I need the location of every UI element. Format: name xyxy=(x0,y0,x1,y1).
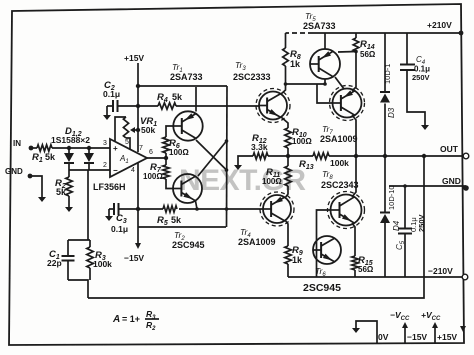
potentiometer VR1 xyxy=(115,117,126,141)
wire cross diagonal 2 xyxy=(198,141,227,176)
node GND terminal xyxy=(28,174,33,179)
svg-text:100Ω: 100Ω xyxy=(292,137,312,146)
wire Tr4 collector up xyxy=(285,186,288,198)
svg-text:GND: GND xyxy=(442,176,461,186)
wire Tr2 emitter down xyxy=(196,201,198,209)
arrow +Vcc xyxy=(434,326,436,344)
arrow -Vcc xyxy=(404,326,406,344)
svg-text:2SA1009: 2SA1009 xyxy=(320,134,358,144)
node C5 top xyxy=(403,184,407,188)
svg-text:5k: 5k xyxy=(171,215,182,225)
svg-text:OUT: OUT xyxy=(440,144,459,154)
transistor Tr8 xyxy=(328,192,365,229)
wire GND down xyxy=(32,176,42,194)
wire +210V rail xyxy=(313,32,461,34)
resistor R9 xyxy=(287,245,289,247)
wire +15V column xyxy=(137,63,139,152)
ground (R2) xyxy=(68,204,70,208)
arrow -15V xyxy=(135,243,141,249)
svg-text:5k: 5k xyxy=(56,187,67,197)
wire Tr8 collector up xyxy=(352,156,356,197)
wire C1 R3 bottom xyxy=(68,280,88,298)
svg-text:3.3k: 3.3k xyxy=(251,142,268,152)
node cross top xyxy=(225,139,229,143)
svg-text:+15V: +15V xyxy=(437,332,457,342)
capacitor C1 xyxy=(67,240,69,256)
svg-text:R2: R2 xyxy=(146,320,156,332)
ground (R12) xyxy=(237,162,239,166)
wire R7 to Tr2 base xyxy=(166,179,173,189)
svg-text:7: 7 xyxy=(139,145,143,152)
svg-text:10D-1: 10D-1 xyxy=(383,64,392,84)
svg-text:2SA733: 2SA733 xyxy=(170,72,203,82)
terminal -210V xyxy=(462,274,468,280)
wire pin2 node down to C1 R3 xyxy=(87,170,89,240)
node feedback tap on OUT xyxy=(422,154,426,158)
node D2 top xyxy=(87,146,91,150)
wire cross diagonal 1 xyxy=(196,140,227,170)
ground (input) xyxy=(41,194,43,198)
node +210V on border xyxy=(459,31,464,36)
svg-text:−: − xyxy=(113,166,118,175)
capacitor C3 xyxy=(109,208,114,210)
wire C1 R3 top xyxy=(68,239,90,241)
node op-amp output xyxy=(164,156,168,160)
transistor Tr4 xyxy=(260,192,294,226)
terminal OUT xyxy=(463,153,469,159)
wire -210V rail xyxy=(288,276,462,278)
svg-text:2SA1009: 2SA1009 xyxy=(238,237,276,247)
wire Tr7 collector down xyxy=(352,115,356,156)
svg-text:250V: 250V xyxy=(417,214,426,232)
transistor Tr1 xyxy=(173,111,202,140)
resistor R3 xyxy=(89,240,91,247)
svg-text:−VCC: −VCC xyxy=(390,310,410,322)
svg-text:5k: 5k xyxy=(45,152,56,162)
terminal GND xyxy=(463,185,469,191)
transistor Tr2 xyxy=(173,174,202,203)
svg-text:100Ω: 100Ω xyxy=(169,148,189,157)
wire R12 to ground xyxy=(238,156,253,162)
svg-text:A: A xyxy=(112,314,120,325)
wire Tr8 base and Tr6 base column xyxy=(317,210,331,277)
svg-text:0.1μ: 0.1μ xyxy=(103,89,120,99)
svg-text:56Ω: 56Ω xyxy=(360,50,376,59)
ground (0V) xyxy=(356,321,377,343)
resistor R4 xyxy=(138,105,158,107)
wire dashed rail segment xyxy=(286,32,314,34)
wire Tr3 collector up xyxy=(281,84,286,94)
resistor R10 xyxy=(285,128,291,148)
wire top rail to Tr1 section xyxy=(138,85,227,87)
resistor R8 1k xyxy=(283,48,289,66)
svg-text:+15V: +15V xyxy=(124,53,144,63)
wire Tr7 base left xyxy=(317,84,333,103)
svg-text:50k: 50k xyxy=(141,125,155,135)
node y84 Tr5 base xyxy=(323,82,327,86)
resistor R14 xyxy=(355,33,357,38)
wiper VR1 xyxy=(132,129,138,131)
node C2 junction xyxy=(136,104,140,108)
wire Tr5 emitter right xyxy=(338,51,356,54)
svg-text:100k: 100k xyxy=(330,158,349,168)
svg-text:1S1588×2: 1S1588×2 xyxy=(51,135,90,145)
node cross bottom xyxy=(225,168,229,172)
diode D3 xyxy=(384,33,386,93)
svg-text:10D-10: 10D-10 xyxy=(387,185,396,210)
svg-text:= 1+: = 1+ xyxy=(122,314,140,324)
svg-text:IN: IN xyxy=(13,139,21,148)
op-amp A1 xyxy=(110,139,147,177)
resistor R6 xyxy=(163,137,169,153)
svg-text:100Ω: 100Ω xyxy=(143,172,163,181)
svg-text:0.1μ: 0.1μ xyxy=(111,224,128,234)
diode D1 xyxy=(68,148,70,153)
ground (C4) xyxy=(424,122,426,126)
wire y84 node xyxy=(286,83,325,85)
node mid xyxy=(286,154,290,158)
resistor R7 xyxy=(165,158,167,165)
svg-text:2: 2 xyxy=(103,162,107,169)
wire Tr5 collector to Tr7 xyxy=(335,77,344,89)
wire Tr4 emitter down xyxy=(285,220,288,246)
node D1 top xyxy=(67,146,71,150)
svg-text:R5: R5 xyxy=(157,215,168,227)
resistor R11 xyxy=(287,156,289,166)
svg-text:3: 3 xyxy=(103,140,107,147)
svg-text:2SC2333: 2SC2333 xyxy=(233,72,271,82)
svg-text:100Ω: 100Ω xyxy=(262,177,282,186)
capacitor C2 xyxy=(107,105,113,107)
svg-text:+210V: +210V xyxy=(427,20,452,30)
svg-text:D3: D3 xyxy=(387,107,396,118)
wire Tr5 top to rail xyxy=(324,33,326,49)
wire Tr3 emitter down xyxy=(281,117,288,128)
svg-text:4: 4 xyxy=(131,167,135,174)
node y209 crossing xyxy=(225,207,229,211)
svg-text:+: + xyxy=(113,144,118,153)
svg-text:56Ω: 56Ω xyxy=(358,265,374,274)
wire feedback bottom rail xyxy=(88,156,424,298)
svg-text:Tr3: Tr3 xyxy=(235,60,246,72)
resistor R13 and OUT wire xyxy=(288,155,313,157)
wire R5 to Tr4 base xyxy=(179,208,263,210)
wire Tr7 emitter top xyxy=(352,52,356,92)
wire lower rectangle xyxy=(138,226,226,228)
node +15V rail branch xyxy=(136,84,140,88)
svg-text:+VCC: +VCC xyxy=(421,310,441,322)
wire Tr8 bottom to R15 xyxy=(352,223,355,256)
node D3 OUT xyxy=(383,154,387,158)
ground (C2) xyxy=(106,106,108,112)
svg-text:2SC945: 2SC945 xyxy=(172,240,205,250)
transistor Tr7 xyxy=(330,86,365,121)
transistor Tr6 xyxy=(313,236,341,264)
svg-text:22p: 22p xyxy=(47,258,62,268)
transistor Tr5 xyxy=(310,49,340,79)
ground (C3) xyxy=(108,209,110,213)
resistor R2 xyxy=(68,170,70,177)
capacitor C5 xyxy=(404,186,406,228)
wire Tr1 emitter up xyxy=(195,87,197,112)
svg-text:5: 5 xyxy=(125,139,129,146)
wire R1 to op-amp pin3 xyxy=(52,147,110,149)
svg-text:R13: R13 xyxy=(299,159,314,171)
svg-text:5k: 5k xyxy=(172,92,183,102)
svg-text:0V: 0V xyxy=(378,332,389,342)
transistor Tr3 xyxy=(256,89,290,123)
wire GND rail xyxy=(389,185,466,187)
svg-text:GND: GND xyxy=(5,167,23,176)
node Tr2 emitter xyxy=(195,207,199,211)
svg-text:6: 6 xyxy=(149,149,153,156)
svg-text:2SA733: 2SA733 xyxy=(303,21,336,31)
wire R2 to ground xyxy=(68,196,70,204)
wire R4 to Tr3 base xyxy=(176,105,259,107)
resistor R15 xyxy=(352,256,358,270)
svg-text:−15V: −15V xyxy=(124,253,144,263)
svg-text:100k: 100k xyxy=(93,259,112,269)
svg-text:1k: 1k xyxy=(290,59,301,69)
svg-text:−15V: −15V xyxy=(407,332,427,342)
resistor R1 xyxy=(37,145,52,151)
resistor R12 xyxy=(268,155,288,157)
wire op-amp output xyxy=(147,157,166,159)
wire cross vertical xyxy=(226,86,229,227)
wire diode bottoms to op-amp pin2 xyxy=(69,169,110,171)
wire pin4 column xyxy=(137,163,139,243)
node C3 junction xyxy=(136,207,140,211)
resistor R5 xyxy=(138,208,163,210)
diode D2 xyxy=(88,148,90,153)
svg-text:A1: A1 xyxy=(119,154,129,165)
svg-text:2SC2343: 2SC2343 xyxy=(321,180,359,190)
svg-text:LF356H: LF356H xyxy=(93,182,126,192)
wire Tr5 base down xyxy=(324,79,326,84)
capacitor C4 xyxy=(406,33,408,64)
wire R6 to Tr1 base xyxy=(166,126,174,137)
wire IN to R1 xyxy=(33,147,37,149)
svg-text:2SC945: 2SC945 xyxy=(303,282,341,294)
svg-text:250V: 250V xyxy=(412,73,430,82)
svg-text:1k: 1k xyxy=(292,255,303,265)
node OUT column xyxy=(354,154,358,158)
node IN terminal xyxy=(29,146,34,151)
diode D4 xyxy=(384,156,386,213)
node R14 bottom xyxy=(354,50,358,54)
arrow on right border xyxy=(460,326,466,332)
node Tr3 collector join xyxy=(284,82,288,86)
svg-text:−210V: −210V xyxy=(428,266,453,276)
svg-text:R1: R1 xyxy=(32,152,43,164)
svg-text:R4: R4 xyxy=(157,92,168,104)
